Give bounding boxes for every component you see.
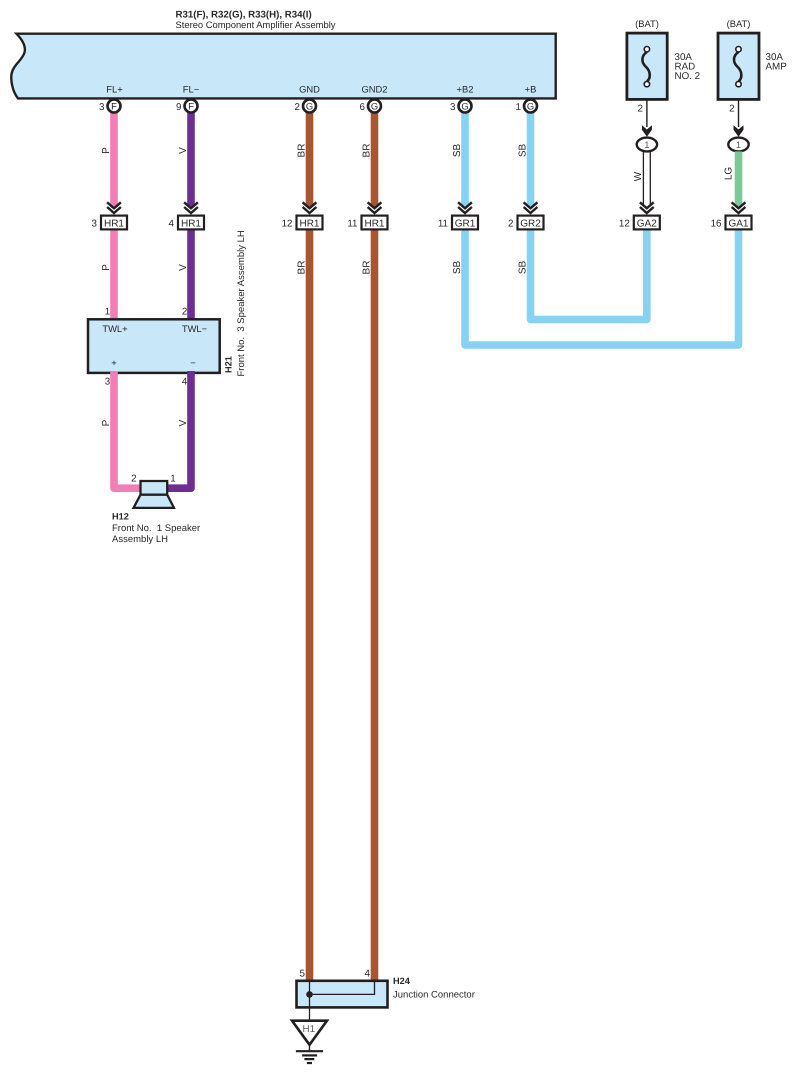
connector 16 GA1 [726, 216, 752, 230]
fuse box 30A RAD NO.2 [627, 33, 667, 99]
wire LG vertical [735, 151, 743, 215]
svg-text:(BAT): (BAT) [727, 18, 751, 29]
svg-text:12: 12 [282, 218, 293, 229]
ground H1 [292, 1021, 327, 1045]
pin circle G (6) [368, 100, 381, 113]
wire BR GND vertical [306, 110, 314, 981]
svg-text:NO. 2: NO. 2 [675, 71, 701, 82]
svg-text:H12: H12 [112, 512, 129, 522]
wire V to speaker [168, 371, 191, 488]
svg-text:BR: BR [362, 261, 373, 275]
svg-text:BR: BR [362, 144, 373, 158]
H21 speaker assembly box [88, 319, 220, 373]
pin circle G (1) +B [524, 100, 537, 113]
chevron c7 [639, 201, 655, 215]
svg-text:BR: BR [297, 261, 308, 275]
svg-text:BR: BR [297, 144, 308, 158]
svg-text:H21: H21 [224, 356, 234, 373]
connector 11 GR1 [452, 216, 478, 230]
svg-text:4: 4 [169, 218, 175, 229]
speaker H12 icon [134, 481, 175, 508]
ground hash lines [296, 1050, 323, 1052]
svg-text:HR1: HR1 [181, 218, 201, 229]
svg-text:AMP: AMP [766, 62, 788, 73]
svg-text:G: G [306, 100, 313, 111]
svg-text:P: P [101, 419, 112, 426]
svg-text:11: 11 [347, 218, 357, 229]
svg-text:GA2: GA2 [637, 218, 657, 229]
fuse2 ellipse node 1 [728, 138, 748, 152]
svg-text:3: 3 [99, 102, 105, 113]
svg-text:V: V [178, 264, 189, 271]
chevron c3 [301, 201, 317, 215]
svg-text:Junction Connector: Junction Connector [393, 989, 475, 1000]
svg-text:3: 3 [92, 218, 98, 229]
svg-text:−: − [190, 357, 196, 368]
svg-text:HR1: HR1 [364, 218, 384, 229]
svg-text:2: 2 [131, 473, 136, 484]
svg-text:SB: SB [452, 261, 463, 275]
svg-text:V: V [178, 147, 189, 154]
svg-text:P: P [101, 264, 112, 271]
wire W vertical [642, 151, 644, 215]
svg-text:+B2: +B2 [457, 84, 474, 95]
fuse1 lead line [646, 100, 648, 128]
svg-text:LG: LG [724, 167, 735, 181]
amplifier assembly box R31-R34 [11, 34, 555, 99]
svg-text:TWL−: TWL− [182, 323, 208, 334]
svg-text:GR1: GR1 [455, 218, 476, 229]
svg-text:11: 11 [438, 218, 448, 229]
svg-text:2: 2 [638, 104, 643, 115]
connector 4 HR1 [178, 216, 204, 230]
svg-text:+B: +B [525, 84, 537, 95]
H24 internal wire [310, 981, 375, 994]
pin circle G (2) [303, 100, 316, 113]
svg-text:(BAT): (BAT) [635, 18, 659, 29]
svg-text:1: 1 [516, 102, 521, 113]
svg-text:4: 4 [182, 376, 188, 387]
fuse1 element symbol [642, 52, 649, 82]
svg-text:3: 3 [450, 102, 456, 113]
svg-text:FL+: FL+ [106, 84, 123, 95]
svg-text:P: P [101, 147, 112, 154]
svg-text:Assembly LH: Assembly LH [112, 534, 168, 545]
fuse1 arrowhead [642, 125, 652, 137]
svg-text:2: 2 [508, 218, 513, 229]
wire V FL- vertical [187, 110, 195, 319]
fuse box 30A AMP [718, 33, 759, 99]
connector 12 GA2 [634, 216, 660, 230]
svg-text:6: 6 [360, 102, 366, 113]
svg-text:Front No. 1 Speaker: Front No. 1 Speaker [112, 523, 200, 534]
connector 3 HR1 [101, 216, 127, 230]
svg-text:4: 4 [365, 968, 371, 979]
svg-text:1: 1 [736, 139, 741, 150]
svg-text:G: G [371, 100, 378, 111]
svg-text:H1: H1 [303, 1024, 316, 1035]
pin circle G (3) +B2 [459, 100, 472, 113]
chevron c2 [183, 201, 199, 215]
connector 11 HR1 [362, 216, 388, 230]
svg-text:TWL+: TWL+ [102, 323, 128, 334]
wire SB +B to GA2 U-route [531, 110, 647, 320]
H24 junction dot [306, 991, 313, 998]
svg-text:HR1: HR1 [299, 218, 319, 229]
svg-text:3: 3 [105, 376, 111, 387]
svg-text:Front No. 3 Speaker Assembly: Front No. 3 Speaker Assembly LH [236, 230, 247, 376]
chevron c1 [106, 201, 122, 215]
svg-text:2: 2 [295, 102, 300, 113]
svg-text:9: 9 [176, 102, 181, 113]
svg-text:GND2: GND2 [361, 84, 387, 95]
H24 junction connector box [297, 981, 388, 1008]
svg-text:SB: SB [518, 261, 529, 275]
chevron c4 [366, 201, 382, 215]
wire P FL+ vertical [110, 110, 118, 319]
svg-text:V: V [178, 419, 189, 426]
svg-text:SB: SB [518, 144, 529, 158]
svg-text:1: 1 [105, 307, 110, 318]
svg-text:G: G [527, 100, 534, 111]
fuse2 arrowhead [734, 125, 744, 137]
pin circle F (9) [185, 100, 198, 113]
svg-text:Stereo Component Amplifier Ass: Stereo Component Amplifier Assembly [176, 19, 336, 30]
svg-text:HR1: HR1 [104, 218, 124, 229]
svg-text:GA1: GA1 [728, 218, 748, 229]
svg-text:12: 12 [619, 218, 630, 229]
pin circle F (3) [108, 100, 121, 113]
svg-text:H24: H24 [393, 976, 411, 986]
svg-text:1: 1 [170, 473, 175, 484]
fuse2 element symbol [734, 52, 741, 82]
wire BR GND2 vertical [371, 110, 379, 981]
svg-text:F: F [188, 100, 194, 111]
svg-text:16: 16 [711, 218, 722, 229]
svg-text:GND: GND [299, 84, 320, 95]
connector 2 GR2 [518, 216, 544, 230]
chevron c6 [522, 201, 538, 215]
svg-text:2: 2 [729, 104, 734, 115]
wire P to speaker [114, 371, 140, 488]
connector 12 HR1 [297, 216, 323, 230]
svg-text:+: + [111, 357, 117, 368]
svg-text:1: 1 [644, 139, 649, 150]
svg-text:FL−: FL− [183, 84, 200, 95]
svg-text:2: 2 [182, 307, 187, 318]
svg-text:SB: SB [452, 144, 463, 158]
wire SB +B2 to GA1 U-route [465, 110, 739, 345]
svg-text:GR2: GR2 [520, 218, 541, 229]
svg-text:F: F [111, 100, 117, 111]
svg-text:G: G [461, 100, 468, 111]
svg-text:W: W [633, 171, 644, 181]
fuse2 lead line [738, 100, 740, 128]
svg-text:5: 5 [300, 968, 306, 979]
fuse1 ellipse node 1 [637, 138, 657, 152]
chevron c8 [730, 201, 746, 215]
chevron c5 [457, 201, 473, 215]
